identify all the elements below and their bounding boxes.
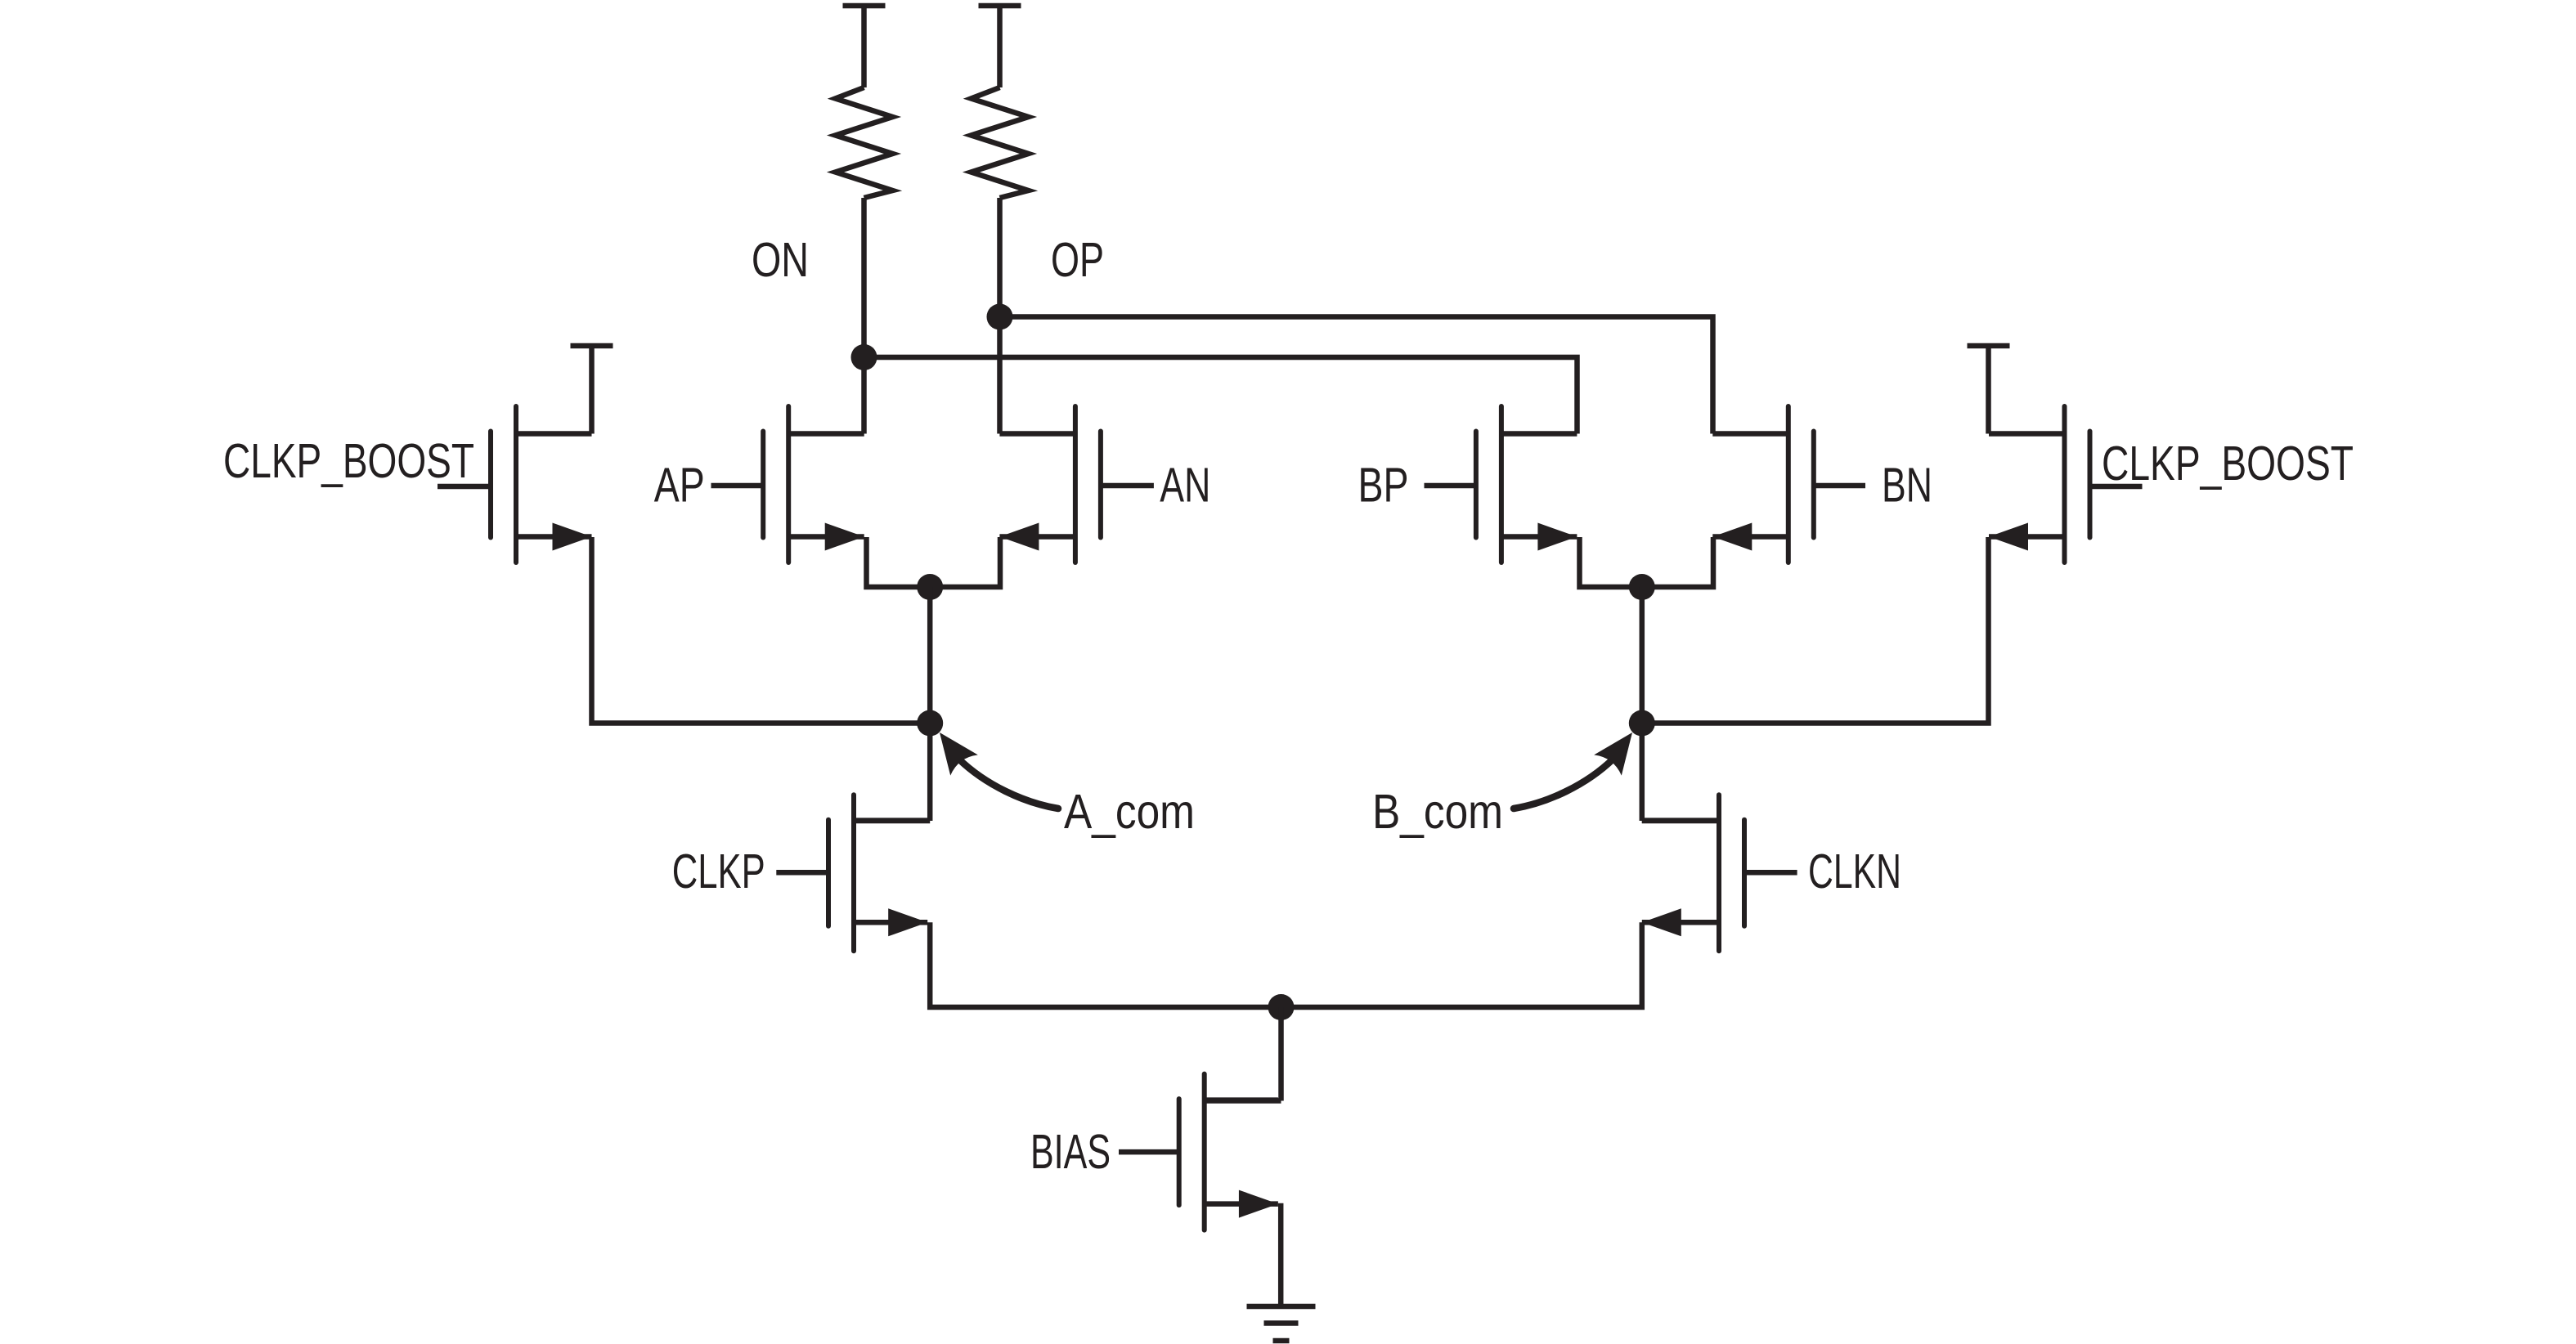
node ON	[851, 344, 877, 370]
svg-text:CLKP_BOOST: CLKP_BOOST	[2102, 437, 2354, 491]
transistor CLKN	[1642, 795, 1797, 951]
supply bar (top of R1)	[843, 3, 886, 9]
wire BIAS source to ground	[1278, 1203, 1284, 1304]
label BIAS	[1030, 1125, 1111, 1179]
node B pair join	[1629, 574, 1655, 600]
node tail	[1268, 994, 1295, 1020]
wire tail (CLKP/CLKN sources to BIAS drain)	[930, 922, 1642, 1007]
label OP	[1051, 233, 1104, 287]
svg-text:BIAS: BIAS	[1030, 1125, 1111, 1179]
label BP	[1358, 459, 1409, 513]
label AP	[654, 459, 705, 513]
svg-text:OP: OP	[1051, 233, 1104, 287]
wire A_com vertical	[927, 587, 933, 821]
svg-text:AP: AP	[654, 459, 705, 513]
transistor AN	[999, 406, 1154, 562]
supply bar of M6	[1968, 346, 2010, 434]
label CLKP	[672, 844, 765, 898]
svg-text:A_com: A_com	[1064, 785, 1195, 839]
transistor CLKP	[776, 795, 930, 951]
wire B pair sources join	[1580, 537, 1714, 587]
annotation arrow to B_com node	[1514, 732, 1632, 809]
node A pair join	[917, 574, 943, 600]
label A_com	[1064, 785, 1195, 839]
wire OP vertical (R2 to AN drain)	[997, 198, 1003, 434]
annotation arrow to A_com node	[940, 732, 1058, 809]
svg-text:BN: BN	[1882, 459, 1932, 513]
wire OP to BN drain	[1000, 317, 1713, 434]
label CLKP_BOOST (right)	[2102, 437, 2354, 491]
svg-text:CLKN: CLKN	[1808, 844, 1901, 898]
label AN	[1160, 459, 1210, 513]
transistor BIAS	[1119, 1074, 1281, 1230]
ground	[1247, 1306, 1316, 1341]
svg-text:CLKP_BOOST: CLKP_BOOST	[223, 434, 474, 488]
label CLKP_BOOST (left)	[223, 434, 474, 488]
transistor M1 CLKP_BOOST (left)	[438, 406, 592, 562]
resistor R1 (ON load)	[836, 6, 893, 198]
label CLKN	[1808, 844, 1901, 898]
svg-text:CLKP: CLKP	[672, 844, 765, 898]
wire BIAS drain vertical	[1278, 1007, 1284, 1101]
label B_com	[1372, 785, 1503, 839]
node B_com	[1629, 710, 1655, 737]
wire ON to BP drain	[864, 357, 1577, 434]
svg-text:AN: AN	[1160, 459, 1210, 513]
wire M1 source to A_com	[592, 537, 931, 724]
svg-text:BP: BP	[1358, 459, 1409, 513]
svg-text:ON: ON	[752, 233, 809, 287]
wire ON vertical (R1 to AP drain)	[861, 198, 867, 434]
supply bar (top of R2)	[979, 3, 1021, 9]
wire A pair sources join	[867, 537, 1001, 587]
label ON	[752, 233, 809, 287]
resistor R2 (OP load)	[972, 6, 1029, 198]
svg-text:B_com: B_com	[1372, 785, 1503, 839]
supply bar of M1	[571, 346, 613, 434]
wire B_com vertical	[1640, 587, 1645, 821]
node A_com	[917, 710, 943, 737]
transistor BP	[1425, 406, 1577, 562]
wire M6 source to B_com	[1642, 537, 1989, 724]
label BN	[1882, 459, 1932, 513]
transistor M6 CLKP_BOOST (right)	[1989, 406, 2143, 562]
node OP	[987, 304, 1013, 330]
transistor AP	[711, 406, 864, 562]
transistor BN	[1712, 406, 1865, 562]
